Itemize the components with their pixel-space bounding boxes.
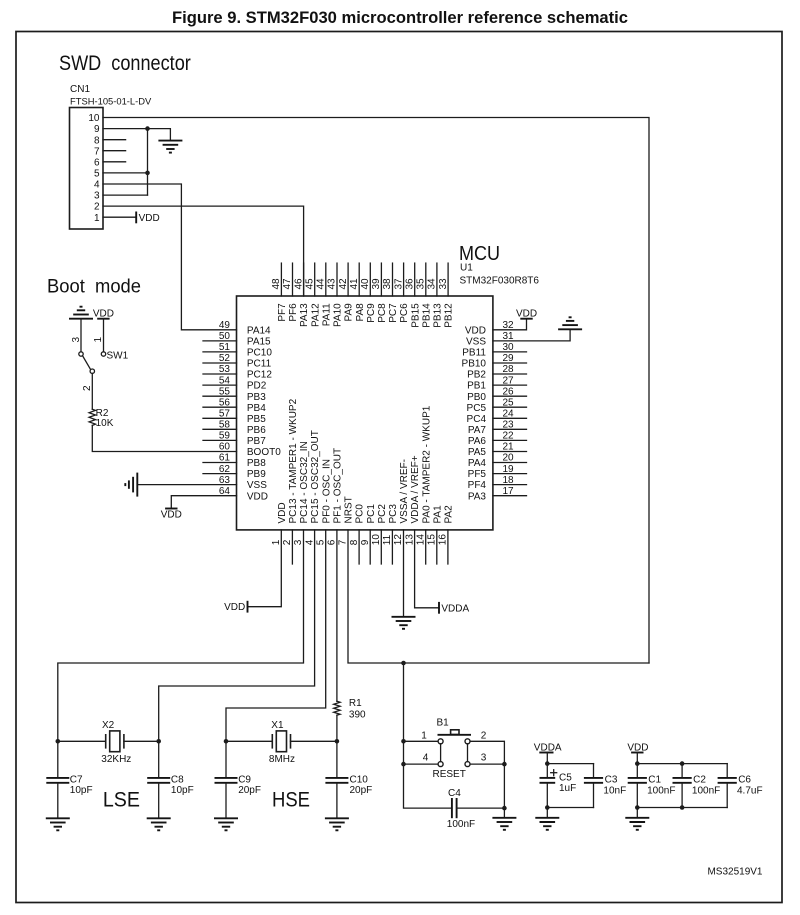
- svg-text:49: 49: [219, 320, 231, 331]
- wire MCU pin4 PC15 to X2 right: [159, 530, 315, 741]
- wire MCU pin31 to GND: [493, 329, 570, 341]
- svg-text:PF0 - OSC_IN: PF0 - OSC_IN: [321, 459, 332, 523]
- ground (VDD group): [625, 818, 649, 830]
- wire CN1 pin3: [103, 194, 148, 196]
- ground (C10): [325, 818, 349, 830]
- wire gnd rail stub: [503, 808, 505, 818]
- svg-text:61: 61: [219, 453, 231, 464]
- svg-text:R1: R1: [349, 698, 362, 709]
- svg-text:PA0 - TAMPER2 - WKUP1: PA0 - TAMPER2 - WKUP1: [421, 405, 432, 523]
- svg-text:10pF: 10pF: [171, 785, 194, 796]
- svg-text:PC13 - TAMPER1 - WKUP2: PC13 - TAMPER1 - WKUP2: [288, 398, 299, 523]
- ground (MCU pin63, pointing left): [125, 473, 137, 497]
- svg-text:33: 33: [438, 278, 449, 290]
- MCU pin 62 PB9 (left): [203, 464, 266, 480]
- wire CN1 pin10 to NRST net (right/top rail): [103, 118, 649, 664]
- MCU pin 16 PA2 (bottom): [438, 505, 455, 564]
- svg-text:30: 30: [503, 342, 515, 353]
- wire R2 to MCU pin60 BOOT0: [92, 425, 236, 451]
- svg-text:PC15 - OSC32_OUT: PC15 - OSC32_OUT: [310, 430, 321, 523]
- svg-text:PA11: PA11: [321, 303, 332, 326]
- svg-text:100nF: 100nF: [692, 786, 720, 797]
- junction CN1 pin9: [145, 126, 150, 131]
- svg-text:VSSA / VREF-: VSSA / VREF-: [399, 459, 410, 523]
- MCU pin 9 PC1 (bottom): [360, 504, 377, 564]
- svg-text:6: 6: [327, 539, 338, 545]
- wire MCU pin5 PF0 to X1 left: [226, 530, 326, 741]
- crystal X1 8MHz: [226, 720, 337, 765]
- svg-text:PC10: PC10: [247, 348, 272, 359]
- svg-text:PC5: PC5: [467, 403, 487, 414]
- wire VDD gnd stub: [636, 808, 638, 818]
- capacitor C5 1uF (polarized): [540, 764, 577, 808]
- svg-text:PC1: PC1: [366, 504, 377, 524]
- svg-text:PA2: PA2: [444, 505, 455, 524]
- push button B1 RESET: [421, 718, 487, 781]
- svg-text:PB13: PB13: [433, 303, 444, 328]
- wire MCU pin32 to VDD: [493, 319, 527, 330]
- MCU pin 31 VSS (right): [466, 331, 514, 347]
- svg-text:C3: C3: [605, 775, 618, 786]
- svg-text:PA9: PA9: [344, 303, 355, 322]
- MCU pin 40 PC9 (top): [360, 263, 377, 323]
- MCU pin 51 PC10 (left): [203, 342, 272, 358]
- svg-text:44: 44: [316, 278, 327, 290]
- junction CN1 pin5: [145, 171, 150, 176]
- MCU pin 37 PC6 (top): [393, 263, 410, 323]
- ground (C7): [46, 818, 70, 830]
- ground (MCU pin12 VSSA): [392, 617, 416, 629]
- wire CN1 pin4 to MCU pin49 SWCLK: [103, 184, 237, 330]
- svg-text:54: 54: [219, 375, 231, 386]
- MCU pin 8 PC0 (bottom): [349, 504, 366, 564]
- svg-text:VDD: VDD: [247, 491, 268, 502]
- svg-text:PB10: PB10: [462, 359, 487, 370]
- svg-text:11: 11: [382, 534, 393, 545]
- svg-text:Figure 9. STM32F030 microcontr: Figure 9. STM32F030 microcontroller refe…: [172, 8, 628, 27]
- svg-text:29: 29: [503, 353, 515, 364]
- svg-text:5: 5: [315, 539, 326, 545]
- svg-text:B1: B1: [437, 718, 450, 729]
- ground (C8): [147, 818, 171, 830]
- svg-text:PA15: PA15: [247, 337, 271, 348]
- svg-text:PB11: PB11: [462, 348, 486, 359]
- power VDDA (MCU pin13): [439, 602, 470, 614]
- connector CN1 FTSH-105-01-L-DV: [70, 84, 153, 229]
- ground (VDDA group): [535, 818, 559, 830]
- svg-text:28: 28: [503, 364, 515, 375]
- svg-text:10pF: 10pF: [70, 785, 93, 796]
- svg-text:PB0: PB0: [467, 392, 486, 403]
- wire MCU pin13 to VDDA: [415, 530, 439, 608]
- svg-text:PC12: PC12: [247, 370, 272, 381]
- svg-text:3: 3: [71, 337, 82, 343]
- junction C4 right / gnd: [502, 806, 507, 811]
- svg-text:X2: X2: [102, 720, 115, 731]
- svg-text:8MHz: 8MHz: [269, 754, 295, 765]
- MCU pin 58 PB6 (left): [203, 420, 266, 436]
- svg-text:100nF: 100nF: [647, 786, 675, 797]
- svg-text:C1: C1: [648, 775, 661, 786]
- junction X2 left: [56, 739, 61, 744]
- svg-text:C7: C7: [70, 775, 83, 786]
- MCU pin 23 PA7 (right): [468, 420, 527, 436]
- wire B1 pin1: [404, 740, 439, 742]
- svg-text:VDD: VDD: [465, 325, 486, 336]
- MCU pin 64 VDD (left): [219, 486, 268, 502]
- svg-text:PA14: PA14: [247, 325, 271, 336]
- wire CN1 pin9 to GND: [103, 128, 148, 130]
- svg-text:20pF: 20pF: [350, 785, 373, 796]
- junction X2 right: [156, 739, 161, 744]
- MCU pin 3 PC14 - OSC32_IN (bottom): [293, 441, 310, 545]
- svg-text:18: 18: [503, 475, 515, 486]
- wire MCU pin12 to GND: [403, 530, 405, 617]
- wire MCU pin3 PC14 to X2 left: [58, 530, 304, 741]
- svg-text:FTSH-105-01-L-DV: FTSH-105-01-L-DV: [70, 96, 152, 107]
- svg-text:35: 35: [416, 278, 427, 290]
- svg-text:34: 34: [427, 278, 438, 290]
- MCU pin 4 PC15 - OSC32_OUT (bottom): [304, 430, 321, 545]
- MCU pin 6 PF1 - OSC_OUT (bottom): [327, 448, 344, 545]
- svg-text:10K: 10K: [96, 418, 114, 429]
- MCU pin 22 PA6 (right): [468, 431, 527, 447]
- svg-text:RESET: RESET: [433, 769, 466, 780]
- svg-text:62: 62: [219, 464, 231, 475]
- wire SW1 pole to R2: [91, 373, 93, 409]
- svg-text:4: 4: [423, 753, 429, 764]
- svg-text:STM32F030R8T6: STM32F030R8T6: [460, 276, 540, 287]
- svg-text:1: 1: [94, 213, 100, 224]
- svg-text:17: 17: [503, 486, 515, 497]
- svg-text:41: 41: [349, 278, 360, 290]
- capacitor C8 10pF: [147, 741, 193, 818]
- svg-text:PB14: PB14: [421, 303, 432, 328]
- wire CN1 pin2 to MCU pin46 SWDIO: [103, 206, 304, 296]
- svg-text:LSE: LSE: [103, 788, 140, 812]
- wire to SWD ground: [148, 129, 171, 141]
- svg-text:21: 21: [503, 442, 515, 453]
- wire MCU pin63 to GND: [137, 484, 236, 486]
- svg-text:43: 43: [327, 278, 338, 290]
- MCU pin 45 PA12 (top): [304, 263, 321, 327]
- svg-text:PA7: PA7: [468, 425, 487, 436]
- ground (SWD): [158, 141, 182, 153]
- MCU pin 30 PB11 (right): [462, 342, 526, 358]
- svg-text:9: 9: [360, 539, 371, 545]
- MCU pin 1 VDD (bottom): [271, 502, 288, 545]
- svg-text:Boot mode: Boot mode: [47, 276, 141, 298]
- svg-text:56: 56: [219, 397, 231, 408]
- MCU pin 18 PF4 (right): [468, 475, 527, 491]
- svg-text:PB6: PB6: [247, 425, 266, 436]
- wire MCU pin6 PF1 to R1: [336, 530, 338, 701]
- svg-text:PA6: PA6: [468, 436, 487, 447]
- MCU pin 29 PB10 (right): [462, 353, 527, 369]
- svg-text:VDD: VDD: [93, 308, 114, 319]
- svg-text:26: 26: [503, 386, 515, 397]
- svg-text:8: 8: [94, 135, 100, 146]
- svg-text:PB8: PB8: [247, 458, 266, 469]
- capacitor C3 10nF: [584, 764, 626, 808]
- wire NRST down to B1 and C4: [404, 663, 452, 808]
- svg-text:7: 7: [94, 146, 100, 157]
- MCU pin 60 BOOT0 (left): [219, 442, 281, 458]
- wire CN1 pin6 stub: [103, 161, 126, 163]
- svg-text:MCU: MCU: [459, 242, 500, 265]
- wire B1 pin4: [404, 763, 439, 765]
- svg-text:8: 8: [349, 539, 360, 545]
- wire CN1 pin7 stub: [103, 150, 126, 152]
- wire MCU pin1 to VDD: [248, 530, 282, 607]
- ground (MCU pin31, flipped up): [558, 317, 582, 329]
- power VDD (SW1 pin1): [93, 308, 114, 319]
- wire VDD top rail: [637, 763, 727, 765]
- svg-text:PC7: PC7: [388, 303, 399, 323]
- MCU pin 34 PB13 (top): [427, 263, 444, 328]
- svg-text:53: 53: [219, 364, 231, 375]
- svg-text:40: 40: [360, 278, 371, 290]
- svg-text:52: 52: [219, 353, 231, 364]
- svg-text:PA3: PA3: [468, 491, 487, 502]
- svg-text:55: 55: [219, 386, 231, 397]
- svg-text:PC9: PC9: [366, 303, 377, 323]
- svg-text:PB9: PB9: [247, 469, 266, 480]
- svg-text:PC0: PC0: [355, 504, 366, 524]
- capacitor C10 20pF: [325, 741, 372, 818]
- svg-text:10: 10: [88, 113, 100, 124]
- MCU U1 STM32F030R8T6 labels: [459, 242, 539, 287]
- svg-text:VDDA / VREF+: VDDA / VREF+: [410, 455, 421, 523]
- svg-text:46: 46: [293, 278, 304, 290]
- wire SW1 pin1 to VDD: [103, 319, 105, 352]
- wire MCU pin7 NRST to reset net: [348, 530, 649, 663]
- svg-text:PC6: PC6: [399, 303, 410, 323]
- MCU pin 61 PB8 (left): [203, 453, 266, 469]
- svg-text:U1: U1: [460, 263, 473, 274]
- svg-text:1: 1: [93, 337, 104, 343]
- svg-text:PA5: PA5: [468, 447, 487, 458]
- MCU pin 17 PA3 (right): [468, 486, 527, 502]
- svg-text:25: 25: [503, 397, 515, 408]
- svg-text:1uF: 1uF: [559, 783, 576, 794]
- svg-text:VDD: VDD: [139, 213, 160, 224]
- MCU pin 13 VDDA / VREF+ (bottom): [404, 455, 421, 545]
- svg-text:10: 10: [371, 534, 382, 546]
- svg-text:PB3: PB3: [247, 392, 266, 403]
- svg-text:6: 6: [94, 157, 100, 168]
- svg-text:13: 13: [404, 534, 415, 546]
- svg-text:VDD: VDD: [224, 602, 245, 613]
- svg-text:PB5: PB5: [247, 414, 266, 425]
- junction C2 bottom: [680, 805, 685, 810]
- svg-text:4: 4: [304, 539, 315, 545]
- svg-text:32KHz: 32KHz: [101, 754, 131, 765]
- junction B1 pin1: [401, 739, 406, 744]
- MCU pin 14 PA0 - TAMPER2 - WKUP1 (bottom): [415, 405, 432, 564]
- wire SW1 pin3 to GND: [80, 319, 82, 352]
- svg-text:60: 60: [219, 442, 231, 453]
- svg-text:37: 37: [393, 278, 404, 290]
- svg-text:PA1: PA1: [432, 505, 443, 524]
- MCU pin 54 PD2 (left): [203, 375, 267, 391]
- svg-text:MS32519V1: MS32519V1: [707, 867, 762, 878]
- svg-text:4: 4: [94, 180, 100, 191]
- crystal X2 32KHz: [58, 720, 159, 765]
- MCU pin 63 VSS (left): [219, 475, 267, 491]
- svg-text:100nF: 100nF: [447, 819, 475, 830]
- svg-text:C10: C10: [350, 775, 369, 786]
- MCU pin 20 PA4 (right): [468, 453, 527, 469]
- svg-text:59: 59: [219, 431, 231, 442]
- junction X1 left: [224, 739, 229, 744]
- wire VDD stem: [636, 753, 638, 764]
- svg-text:5: 5: [94, 169, 100, 180]
- svg-text:PA10: PA10: [333, 303, 344, 327]
- MCU pin 5 PF0 - OSC_IN (bottom): [315, 459, 332, 545]
- wire GND vertical CN1 pins 9-5-3: [147, 129, 149, 196]
- svg-text:1: 1: [271, 539, 282, 545]
- ground (reset circuit): [492, 818, 516, 830]
- MCU pin 28 PB2 (right): [467, 364, 526, 380]
- svg-text:VSS: VSS: [247, 480, 267, 491]
- MCU pin 27 PB1 (right): [467, 375, 526, 391]
- svg-text:PC3: PC3: [388, 504, 399, 524]
- switch SW1: [79, 351, 129, 374]
- svg-text:CN1: CN1: [70, 84, 90, 95]
- capacitor C9 20pF: [215, 741, 261, 818]
- MCU pin 47 PF6 (top): [282, 263, 299, 322]
- svg-text:PB4: PB4: [247, 403, 266, 414]
- MCU pin 11 PC3 (bottom): [382, 504, 399, 564]
- svg-text:C6: C6: [738, 775, 751, 786]
- MCU pin 12 VSSA / VREF- (bottom): [393, 459, 410, 545]
- svg-text:14: 14: [415, 534, 426, 546]
- MCU pin 52 PC11 (left): [203, 353, 272, 369]
- MCU pin 2 PC13 - TAMPER1 - WKUP2 (bottom): [282, 398, 299, 564]
- svg-text:9: 9: [94, 124, 100, 135]
- MCU pin 21 PA5 (right): [468, 442, 527, 458]
- svg-text:15: 15: [427, 534, 438, 546]
- svg-text:VDD: VDD: [161, 509, 182, 520]
- capacitor C1 100nF: [628, 764, 676, 808]
- svg-text:C9: C9: [238, 775, 251, 786]
- svg-text:PB15: PB15: [410, 303, 421, 328]
- svg-text:2: 2: [481, 730, 487, 741]
- svg-text:27: 27: [503, 375, 515, 386]
- svg-text:PF4: PF4: [468, 480, 487, 491]
- MCU pin 50 PA15 (left): [203, 331, 271, 347]
- power VDD (MCU pin64): [161, 509, 182, 521]
- svg-text:PA13: PA13: [299, 303, 310, 327]
- MCU pin 25 PC5 (right): [467, 397, 527, 413]
- MCU pin 56 PB4 (left): [203, 397, 266, 413]
- MCU pin 43 PA10 (top): [327, 263, 344, 327]
- svg-text:SW1: SW1: [107, 351, 129, 362]
- junction B1 pin3 / gnd rail: [502, 762, 507, 767]
- capacitor C7 10pF: [46, 741, 92, 818]
- svg-text:12: 12: [393, 534, 404, 546]
- svg-text:2: 2: [282, 539, 293, 545]
- svg-text:PA8: PA8: [355, 303, 366, 322]
- svg-text:36: 36: [404, 278, 415, 290]
- svg-text:58: 58: [219, 420, 231, 431]
- wire CN1 pin8 stub: [103, 139, 126, 141]
- MCU pin 39 PC8 (top): [371, 263, 388, 323]
- MCU pin 59 PB7 (left): [203, 431, 266, 447]
- MCU pin 55 PB3 (left): [203, 386, 266, 402]
- svg-text:1: 1: [421, 730, 427, 741]
- svg-text:PB7: PB7: [247, 436, 266, 447]
- wire CN1 pin5: [103, 172, 148, 174]
- svg-text:42: 42: [338, 278, 349, 290]
- svg-text:22: 22: [503, 431, 515, 442]
- MCU pin 10 PC2 (bottom): [371, 504, 388, 564]
- svg-text:PC4: PC4: [467, 414, 487, 425]
- svg-text:47: 47: [282, 278, 293, 290]
- svg-text:PF5: PF5: [468, 469, 487, 480]
- capacitor C6 4.7uF: [718, 764, 763, 808]
- svg-text:SWD connector: SWD connector: [59, 52, 191, 75]
- junction VDD top C1: [635, 761, 640, 766]
- svg-text:PF1 - OSC_OUT: PF1 - OSC_OUT: [333, 448, 344, 524]
- MCU pin 48 PF7 (top): [271, 263, 288, 322]
- wire VDD bottom rail: [637, 807, 727, 809]
- ground (C9): [214, 818, 238, 830]
- svg-text:NRST: NRST: [344, 496, 355, 523]
- wire VDDA top rail: [547, 763, 593, 765]
- junction C2 top: [680, 761, 685, 766]
- svg-text:PB12: PB12: [444, 303, 455, 328]
- MCU pin 19 PF5 (right): [468, 464, 527, 480]
- MCU pin 49 PA14 (left): [219, 320, 271, 336]
- svg-text:VSS: VSS: [466, 337, 486, 348]
- svg-text:38: 38: [382, 278, 393, 290]
- svg-text:X1: X1: [271, 720, 284, 731]
- MCU pin 7 NRST (bottom): [338, 496, 355, 545]
- wire R1 to X1 right: [336, 715, 338, 741]
- junction B1 pin4: [401, 762, 406, 767]
- svg-text:PF6: PF6: [288, 303, 299, 322]
- svg-text:PB1: PB1: [467, 381, 486, 392]
- MCU pin 46 PA13 (top): [293, 263, 310, 327]
- svg-text:PA4: PA4: [468, 458, 487, 469]
- svg-text:VDD: VDD: [516, 308, 537, 319]
- svg-text:C8: C8: [171, 775, 184, 786]
- svg-text:2: 2: [94, 202, 100, 213]
- ground (boot mode, flipped up): [69, 307, 93, 319]
- MCU pin 24 PC4 (right): [467, 409, 527, 425]
- MCU pin 44 PA11 (top): [316, 263, 333, 326]
- svg-text:39: 39: [371, 278, 382, 290]
- wire B1 pin3: [470, 763, 505, 765]
- wire VDDA stem: [546, 753, 548, 764]
- svg-text:HSE: HSE: [272, 788, 310, 812]
- junction VDDA bottom: [545, 805, 550, 810]
- svg-text:57: 57: [219, 409, 231, 420]
- svg-text:3: 3: [94, 191, 100, 202]
- svg-text:PA12: PA12: [310, 303, 321, 327]
- svg-text:PC14 - OSC32_IN: PC14 - OSC32_IN: [299, 441, 310, 523]
- svg-text:24: 24: [503, 409, 515, 420]
- MCU pin 26 PB0 (right): [467, 386, 526, 402]
- svg-text:51: 51: [219, 342, 231, 353]
- svg-text:10nF: 10nF: [603, 786, 626, 797]
- svg-text:BOOT0: BOOT0: [247, 447, 281, 458]
- power VDD (MCU pin32): [516, 308, 537, 319]
- svg-text:48: 48: [271, 278, 282, 290]
- svg-text:C4: C4: [448, 788, 461, 799]
